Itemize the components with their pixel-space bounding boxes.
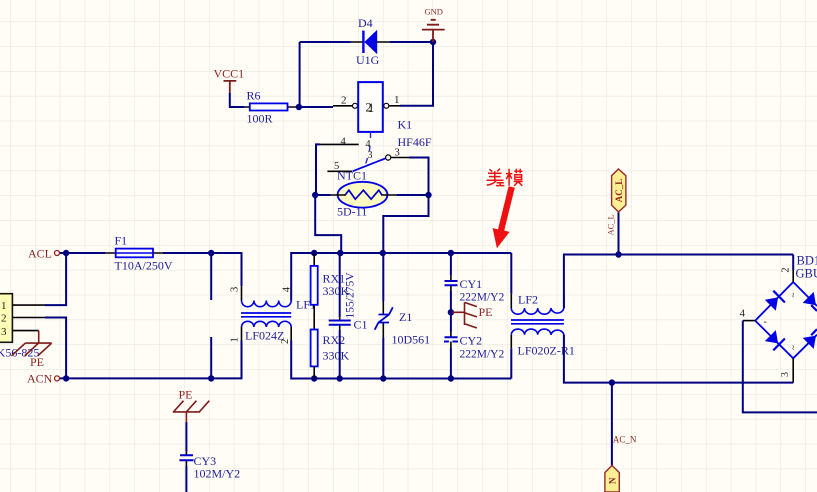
- wire: bridge pin 2 to AC_L rail: [792, 255, 794, 271]
- junction: ACN rail stub: [208, 375, 214, 381]
- junction: top-right at GND: [430, 39, 436, 45]
- wire: ACL to fuse: [60, 252, 106, 254]
- power symbol PE (connector): [12, 331, 52, 369]
- svg-text:VCC1: VCC1: [214, 67, 245, 81]
- wire: NTC left branch down to ACL rail: [315, 195, 341, 253]
- svg-text:Z1: Z1: [399, 310, 412, 324]
- inductor LF1: [241, 286, 291, 340]
- net flag AC_L: [612, 169, 626, 212]
- svg-text:~: ~: [789, 293, 799, 298]
- wire: ACN rail into LF2 (left bottom riser): [510, 348, 512, 378]
- svg-text:CY1: CY1: [460, 277, 483, 291]
- svg-text:2: 2: [781, 268, 792, 273]
- svg-text:RX2: RX2: [323, 333, 346, 347]
- bridge pin 3 stub: [792, 358, 794, 382]
- wire: NTC left to junction: [315, 194, 331, 196]
- wire: fuse to LF1 pin3 riser: [163, 253, 242, 286]
- resistor RX1: [311, 253, 318, 330]
- capacitor C1: [329, 253, 351, 379]
- svg-text:~: ~: [789, 345, 799, 350]
- relay K1 actuator dashed link: [366, 132, 371, 164]
- wire: dangling stub upper: [210, 253, 212, 300]
- svg-text:D4: D4: [358, 16, 373, 30]
- junction: R6 / relay pin2 node: [296, 104, 302, 110]
- svg-text:NTC1: NTC1: [337, 169, 367, 183]
- svg-text:2: 2: [1, 313, 7, 325]
- junction: CY2 bottom: [448, 375, 454, 381]
- wire: LF2 right bottom riser and AC_N rail: [564, 335, 793, 383]
- net flag AC_N: [605, 466, 619, 492]
- port ACN: [27, 372, 60, 386]
- svg-text:C1: C1: [354, 318, 368, 332]
- svg-text:GBU: GBU: [796, 267, 817, 281]
- wire: PE to CY3: [185, 422, 187, 452]
- power symbol PE (Y-caps): [451, 302, 493, 328]
- svg-text:LF2: LF2: [518, 293, 538, 307]
- junction: ACL rail stub: [208, 250, 214, 256]
- svg-text:PE: PE: [30, 355, 44, 369]
- svg-text:PE: PE: [179, 388, 193, 402]
- connector JK56-825: [0, 294, 45, 343]
- svg-text:4: 4: [740, 308, 746, 320]
- svg-text:3: 3: [1, 326, 7, 338]
- junction: AC_N tap: [609, 379, 615, 385]
- junction: Z1 bottom: [380, 375, 386, 381]
- wire: node to relay pin 2: [299, 106, 333, 108]
- svg-text:1: 1: [230, 337, 241, 342]
- wire: top loop left vertical: [299, 42, 301, 107]
- svg-text:N: N: [607, 477, 617, 484]
- wire: dangling stub lower: [210, 337, 212, 378]
- wire: connector pin2 to ACN: [45, 318, 66, 379]
- junction: Z1 top: [380, 250, 386, 256]
- junction: C1 top: [337, 250, 343, 256]
- wire: ACN rail to LF1 pin1 riser: [60, 341, 242, 379]
- wire: pin4 corner down: [316, 144, 320, 195]
- relay switch pin 3 contact: [386, 155, 391, 160]
- relay switch arm: [353, 158, 386, 171]
- svg-text:100R: 100R: [247, 112, 273, 126]
- svg-text:5D-11: 5D-11: [337, 205, 367, 219]
- resistor RX2: [311, 330, 318, 379]
- wire: LF2 right top riser and AC_L rail: [564, 255, 793, 309]
- svg-text:HF46F: HF46F: [398, 135, 432, 149]
- wire: pin3 to right corner down: [409, 158, 429, 196]
- junction: ACN / connector pin2: [63, 375, 69, 381]
- diode BD1 top-right: [803, 292, 816, 305]
- junction: ACL / connector pin1: [63, 250, 69, 256]
- junction: RX1 top: [311, 250, 317, 256]
- diode BD1 bottom-right: [803, 336, 816, 349]
- svg-text:PE: PE: [479, 305, 493, 319]
- wire: AC_N flag stem: [611, 383, 613, 466]
- svg-text:AC_N: AC_N: [613, 435, 637, 445]
- power symbol VCC1: [214, 67, 245, 94]
- resistor R6: [244, 103, 299, 110]
- svg-text:LF024Z: LF024Z: [245, 329, 284, 343]
- svg-text:1: 1: [368, 101, 374, 115]
- svg-text:4: 4: [366, 139, 371, 150]
- wire: LF1 pin4 riser and ACL right rail: [291, 253, 511, 301]
- svg-text:ACL: ACL: [28, 247, 52, 261]
- junction: NTC left: [312, 192, 318, 198]
- svg-text:330K: 330K: [323, 349, 350, 363]
- wire: top horizontal to D4 and GND: [300, 41, 433, 43]
- fuse F1: [106, 249, 163, 258]
- relay K1 coil: [333, 82, 400, 132]
- relay switch pin 4 stub: [320, 143, 359, 145]
- svg-text:222M/Y2: 222M/Y2: [460, 349, 505, 361]
- svg-text:3: 3: [230, 287, 241, 292]
- power symbol GND: [422, 7, 445, 43]
- varistor Z1: [375, 253, 393, 379]
- annotation arrow (differential mode): [493, 186, 515, 248]
- svg-text:1: 1: [1, 300, 7, 312]
- svg-text:LF020Z-R1: LF020Z-R1: [518, 344, 575, 358]
- thermistor NTC1: [331, 182, 397, 208]
- capacitor CY2: [444, 312, 458, 378]
- svg-text:3: 3: [368, 150, 373, 161]
- diode BD1 top-left: [765, 297, 778, 310]
- junction: AC_L tap: [615, 251, 621, 257]
- wire: NTC right branch down to ACL rail: [383, 195, 428, 253]
- svg-text:F1: F1: [115, 234, 128, 248]
- svg-text:155/275V: 155/275V: [345, 272, 357, 319]
- wire: VCC1 to R6: [230, 93, 244, 107]
- svg-text:T10A/250V: T10A/250V: [115, 259, 173, 273]
- annotation text 差模: [487, 169, 523, 186]
- wire: GND vertical to relay pin 1: [400, 42, 433, 106]
- wire: AC_L flag stem: [618, 212, 620, 255]
- junction: C1 bottom: [337, 375, 343, 381]
- svg-text:4: 4: [341, 137, 347, 148]
- diode D4: [351, 30, 390, 54]
- port ACL: [28, 247, 60, 261]
- relay switch pin 3 stub: [391, 157, 409, 159]
- capacitor CY1: [445, 253, 458, 312]
- svg-text:2: 2: [341, 95, 347, 107]
- svg-text:CY2: CY2: [460, 334, 483, 348]
- junction: CY1 top: [448, 250, 454, 256]
- svg-text:BD1: BD1: [797, 254, 817, 268]
- junction: RX2 bottom: [311, 375, 317, 381]
- svg-text:-: -: [764, 317, 767, 328]
- diode BD1 bottom-left: [765, 330, 778, 343]
- junction: CY1/CY2 midpoint: [448, 309, 454, 315]
- svg-text:GND: GND: [425, 7, 443, 17]
- relay switch pin 5 stub: [327, 170, 352, 172]
- svg-text:AC_L: AC_L: [614, 179, 624, 203]
- svg-text:R6: R6: [247, 89, 261, 103]
- bridge rectifier BD1: [755, 282, 817, 358]
- power symbol PE (CY3 branch): [173, 388, 210, 423]
- svg-text:1: 1: [394, 94, 400, 106]
- wire: LF1 pin2 riser and ACN right rail: [291, 341, 511, 379]
- wire: connector pin1 to ACL: [45, 253, 66, 305]
- bridge pin 4 stub: [743, 320, 755, 322]
- svg-text:AC_L: AC_L: [606, 214, 616, 235]
- capacitor CY3: [179, 452, 193, 492]
- junction: NTC right: [425, 192, 431, 198]
- svg-text:10D561: 10D561: [392, 333, 431, 347]
- svg-text:U1G: U1G: [356, 53, 380, 67]
- svg-text:K1: K1: [398, 118, 413, 132]
- inductor LF2: [511, 294, 564, 349]
- wire: NTC right to junction: [397, 194, 429, 196]
- wire: ACL rail into LF2 (left top riser): [510, 253, 512, 294]
- svg-text:3: 3: [780, 372, 791, 377]
- svg-text:ACN: ACN: [27, 372, 53, 386]
- svg-text:102M/Y2: 102M/Y2: [194, 467, 241, 481]
- wire: bridge pin 4 down and right: [743, 321, 817, 413]
- bridge pin 2 stub: [792, 270, 794, 282]
- svg-text:222M/Y2: 222M/Y2: [460, 292, 505, 304]
